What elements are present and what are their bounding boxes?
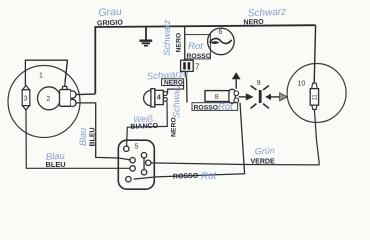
wire red main vertical [184,26,186,60]
coil label box ROSSO Rot [192,102,238,113]
svg-text:2: 2 [47,96,51,103]
arrow left toward spark [265,94,279,100]
wire black lamp top branch [168,85,184,93]
ignition coil 8 [205,89,239,103]
switch link T4-T6 [143,158,145,170]
svg-text:7: 7 [195,62,200,71]
wire grey connector to rail [76,93,95,96]
wire green switch to headlamp [151,163,319,165]
svg-text:5: 5 [135,144,139,151]
svg-text:3: 3 [24,96,28,103]
wire blue connector to switch [76,103,130,160]
svg-text:VERDE: VERDE [251,159,275,166]
svg-text:Schwarz: Schwarz [172,83,182,118]
svg-text:Blau: Blau [78,128,88,146]
ignition source coil 2 [38,87,61,110]
connector block [60,86,77,106]
svg-text:6: 6 [218,29,222,36]
wire black rail to bulb [314,25,315,83]
condenser 3 [22,85,30,110]
svg-text:10: 10 [298,81,306,88]
svg-text:ROSSO: ROSSO [173,173,199,181]
ground [140,26,153,46]
wire red coil to switch bottom [134,103,245,179]
spark plug 9 [251,86,269,109]
wire white lamp to switch [127,102,168,147]
svg-text:Schwarz: Schwarz [248,7,287,20]
svg-text:9: 9 [257,80,261,87]
svg-text:Rot: Rot [200,170,218,182]
svg-text:11: 11 [313,94,319,101]
svg-text:Schwarz: Schwarz [162,19,173,56]
switch terminals [124,146,151,182]
svg-text:BLEU: BLEU [90,127,97,146]
wire connector top to loop [65,61,68,86]
arrow triangle into headlamp [280,93,288,101]
arrow coil to spark [239,93,254,100]
svg-text:NERO: NERO [171,117,178,137]
wire points loop [25,60,67,85]
svg-text:1: 1 [39,73,43,80]
tail lamp 4 [144,89,168,107]
flywheel magneto circle 1 [8,66,80,138]
svg-text:8: 8 [215,94,219,101]
horn 6 [208,28,235,55]
label NERO boxed [162,79,184,87]
wire green bulb down [314,109,319,164]
headlamp 10 [287,64,346,123]
fuse 7 [181,60,194,71]
svg-text:ROSSO:: ROSSO: [194,104,221,111]
arrow up from coil cap [232,72,241,89]
wire grey top rail [95,25,315,94]
bulb 11 [310,83,318,109]
svg-text:GRIGIO: GRIGIO [97,18,124,28]
wire blue condenser down [26,110,130,168]
svg-text:BIANCO: BIANCO [130,123,158,131]
svg-text:Rot: Rot [188,41,203,52]
svg-text:NERO: NERO [176,33,183,53]
switch 5 body [118,140,154,189]
svg-text:NERO: NERO [243,19,264,27]
svg-text:Grün: Grün [254,145,275,156]
horn label box Rot ROSSO [185,35,211,60]
svg-text:ROSSO: ROSSO [187,53,212,60]
svg-text:Rot: Rot [218,102,233,113]
svg-text:BLEU: BLEU [46,160,66,169]
